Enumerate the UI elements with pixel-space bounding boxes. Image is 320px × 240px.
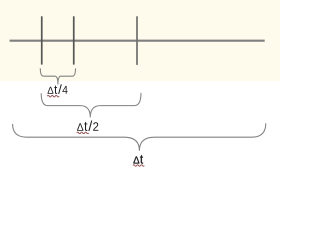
label Δt [133, 155, 143, 163]
brace Δt/2 [41, 93, 141, 118]
timeline [10, 40, 265, 42]
tick 2 [73, 16, 75, 64]
brace Δt [13, 123, 266, 151]
tick 3 [136, 16, 138, 65]
squiggle under Δt of Δt/2 [77, 132, 89, 134]
squiggle under Δt of Δt/4 [47, 95, 59, 97]
brace Δt/4 [40, 68, 75, 84]
tick 1 [41, 16, 43, 64]
squiggle under Δt [133, 165, 144, 167]
beige slide background [0, 0, 280, 81]
label Δt/2 [77, 121, 98, 131]
label Δt/4 [47, 84, 67, 94]
